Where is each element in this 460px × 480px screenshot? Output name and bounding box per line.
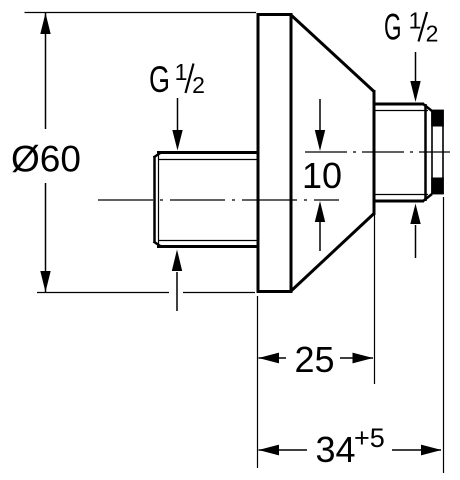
dim 34 right extension line (seal face) — [443, 197, 445, 473]
svg-text:G: G — [384, 7, 402, 48]
dim Ø60 bottom extension line seg2 — [183, 292, 255, 294]
dim Ø60 arrow down — [40, 271, 50, 292]
left pipe thread root bottom — [159, 240, 258, 242]
right thread root top — [375, 110, 428, 112]
flange (wall escutcheon body) — [258, 15, 291, 292]
svg-text:25: 25 — [294, 339, 334, 380]
svg-text:Ø60: Ø60 — [11, 139, 81, 180]
seal ring outline — [432, 111, 443, 194]
label G1/2 left: fraction slash — [186, 64, 194, 94]
right thread end face — [424, 104, 427, 201]
arrow up at left pipe bottom — [172, 250, 182, 312]
dim Ø60 line upper segment — [45, 13, 47, 129]
svg-text:+5: +5 — [354, 423, 385, 453]
left pipe end inner line — [158, 153, 160, 246]
right thread outer bottom edge — [374, 200, 424, 203]
svg-text:G: G — [149, 59, 170, 100]
dim 10 arrow down — [315, 99, 325, 151]
dim 25 line left — [259, 357, 287, 359]
dim 10 arrow up — [315, 201, 325, 251]
label G1/2 left arrow stem — [177, 98, 179, 131]
svg-text:2: 2 — [426, 21, 439, 47]
right thread root bottom — [375, 194, 428, 196]
cone top slope — [291, 15, 375, 92]
dim 25 arrow left — [259, 353, 280, 364]
svg-text:1: 1 — [409, 8, 422, 34]
dim 34 line left — [259, 449, 308, 451]
label G1/2 right arrow stem — [415, 52, 417, 82]
left pipe end face — [153, 156, 156, 243]
right thread chamfer bottom — [423, 194, 433, 202]
center line upper (right thread axis) — [305, 151, 450, 153]
left pipe outer top edge — [157, 151, 258, 154]
dim 34 arrow right — [421, 445, 442, 456]
dim Ø60 arrow up — [40, 13, 50, 34]
center line lower (left pipe axis) — [98, 199, 339, 201]
dim 34 arrow left — [259, 445, 280, 456]
right thread outer top edge — [374, 103, 424, 106]
seal ring upper black band — [431, 110, 444, 127]
dim 25 arrow right — [353, 353, 374, 364]
dim 34 line right — [392, 449, 441, 451]
seal ring lower black band — [431, 178, 444, 195]
svg-text:34: 34 — [315, 429, 355, 470]
shoulder face — [373, 90, 376, 215]
svg-text:1: 1 — [175, 59, 188, 85]
dim Ø60 bottom extension line seg1 — [37, 292, 169, 294]
dim 34 left extension line (flange face) — [257, 296, 259, 468]
arrow up at right thread bottom — [410, 204, 420, 259]
left pipe chamfer bottom — [154, 242, 162, 247]
dim 25 line right — [340, 357, 373, 359]
svg-text:2: 2 — [192, 72, 205, 98]
dim Ø60 line lower segment — [45, 183, 47, 292]
svg-text:10: 10 — [302, 155, 342, 196]
left pipe outer bottom edge — [157, 245, 258, 248]
dim 25 right extension line — [374, 215, 376, 384]
left pipe chamfer top — [154, 153, 162, 158]
left pipe thread root top — [159, 159, 258, 161]
dim Ø60 top extension line — [25, 12, 257, 14]
right thread chamfer top — [423, 104, 433, 112]
label G1/2 left arrow head — [172, 130, 182, 151]
label G1/2 right: fraction slash — [419, 12, 428, 42]
label G1/2 right arrow head — [410, 81, 420, 102]
cone bottom slope — [291, 214, 375, 292]
